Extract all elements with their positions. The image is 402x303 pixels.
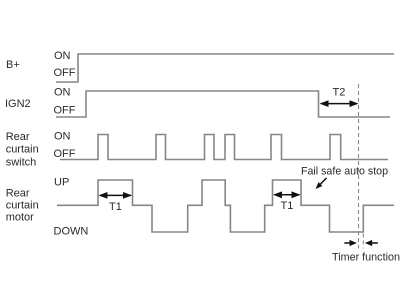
svg-text:T1: T1 xyxy=(281,200,294,212)
svg-text:ON: ON xyxy=(54,130,71,142)
wire B+ waveform xyxy=(56,54,394,82)
wire IGN2 waveform xyxy=(56,91,390,117)
arrow fail safe pointer xyxy=(316,178,327,189)
arrow T2 double-headed xyxy=(320,100,359,107)
arrow timer right (points left) xyxy=(365,240,378,246)
arrow T1 first double-headed xyxy=(99,192,133,199)
svg-text:Fail safe auto stop: Fail safe auto stop xyxy=(301,166,388,178)
svg-text:OFF: OFF xyxy=(54,148,76,160)
svg-text:OFF: OFF xyxy=(54,105,76,117)
arrow timer left (points right) xyxy=(344,240,357,246)
dashed short line at motor rise xyxy=(362,234,364,249)
svg-text:UP: UP xyxy=(54,177,69,189)
svg-text:ON: ON xyxy=(54,87,71,99)
svg-text:IGN2: IGN2 xyxy=(5,98,31,110)
svg-text:OFF: OFF xyxy=(54,67,76,79)
arrow T1 second double-headed xyxy=(273,191,301,198)
svg-text:Timer function: Timer function xyxy=(332,252,400,264)
svg-text:T1: T1 xyxy=(109,201,122,213)
svg-text:T2: T2 xyxy=(333,87,346,99)
svg-text:Rear: Rear xyxy=(6,188,30,200)
svg-text:DOWN: DOWN xyxy=(54,226,89,238)
svg-text:motor: motor xyxy=(6,212,34,224)
svg-text:curtain: curtain xyxy=(6,200,39,212)
svg-text:B+: B+ xyxy=(6,59,20,71)
svg-text:ON: ON xyxy=(54,50,71,62)
wire Rear curtain switch waveform with 6 pulses xyxy=(60,135,388,160)
svg-text:curtain: curtain xyxy=(6,144,39,156)
svg-text:Rear: Rear xyxy=(6,131,30,143)
svg-text:switch: switch xyxy=(6,156,37,168)
dashed timing reference line xyxy=(358,84,360,249)
wire Rear curtain motor waveform (UP/neutral/DOWN) xyxy=(57,180,394,232)
